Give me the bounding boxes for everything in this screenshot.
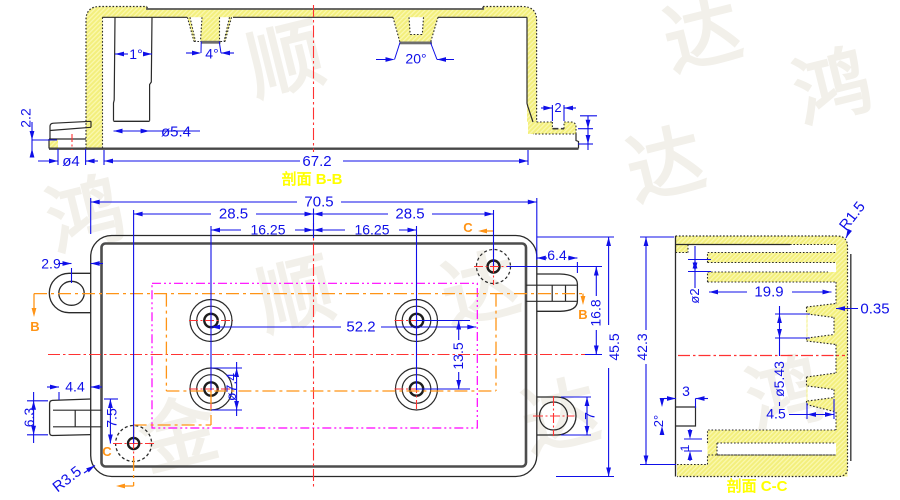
svg-text:ø5.43: ø5.43 (771, 361, 787, 397)
dim 45.5 (537, 236, 614, 238)
dim 4.5 (806, 403, 808, 419)
plan top-right screw hole (477, 250, 511, 284)
B arrows (33, 294, 35, 310)
dim 19.9 (709, 291, 747, 293)
svg-text:19.9: 19.9 (754, 284, 783, 301)
svg-text:13.5: 13.5 (450, 342, 466, 369)
svg-text:2°: 2° (651, 415, 666, 427)
C-C right bar inner edge segments (dotted) (835, 282, 837, 430)
C-C centerline (red) (678, 355, 845, 357)
dim 1deg (115, 53, 128, 55)
dim o5.43 (775, 313, 810, 315)
20deg tooth outline (393, 17, 438, 42)
svg-text:42.3: 42.3 (634, 333, 650, 360)
svg-text:6.3: 6.3 (21, 408, 37, 428)
svg-text:B: B (578, 307, 587, 322)
svg-text:ø2: ø2 (687, 288, 702, 303)
dim o2 (688, 259, 711, 261)
plan lower-left ear (50, 399, 91, 436)
svg-text:ø7.4: ø7.4 (223, 373, 239, 401)
plan bottom-left screw hole (116, 426, 152, 462)
magenta keep-out rect (152, 283, 477, 428)
svg-text:16.25: 16.25 (250, 222, 285, 238)
svg-text:70.5: 70.5 (304, 194, 333, 211)
ear hole centerline (red) (71, 134, 73, 150)
dim 3 (664, 398, 676, 400)
svg-text:28.5: 28.5 (219, 206, 248, 223)
section B-B right foot (528, 122, 576, 134)
svg-text:1°: 1° (129, 46, 142, 62)
dim 16.8 (507, 266, 602, 268)
dim 7 (ear) (561, 396, 591, 398)
svg-text:7.5: 7.5 (104, 408, 120, 428)
svg-text:4.4: 4.4 (65, 379, 85, 395)
plan left ear hole o4 (59, 281, 84, 305)
dim 42.3 (640, 236, 674, 238)
section B-B yellow cut area (86, 7, 537, 149)
C-C boss outlines (dotted) (807, 304, 837, 345)
dim 13.5 (417, 320, 471, 322)
svg-text:4.5: 4.5 (766, 406, 786, 422)
inner left wall edge (dotted) (102, 17, 104, 148)
C-C outline: outer (dotted) (676, 236, 848, 477)
C-C top bar bottom edge (676, 244, 791, 246)
right end step outline (576, 134, 579, 149)
dim o7.4 (211, 367, 242, 369)
C-C fin outlines (dotted) (708, 253, 837, 283)
plan outer case (91, 236, 537, 477)
C-C yellow: slot1 left strip (676, 245, 689, 253)
C-C outer side wall line (850, 254, 852, 461)
dim 20deg (376, 59, 394, 61)
right foot outline (533, 122, 576, 134)
svg-text:7: 7 (582, 412, 598, 420)
section B-B ear cut piece (49, 139, 58, 149)
dim 70.5 (90, 198, 92, 234)
plan bottom-right ear (537, 397, 576, 435)
dim 1 (684, 438, 702, 440)
boss (o5.4) edges (114, 17, 116, 121)
section B-B outer profile (dotted) (86, 7, 147, 149)
section B-B 4deg boss tooth (187, 17, 231, 41)
plan bosses (190, 300, 232, 342)
svg-text:2.2: 2.2 (18, 108, 34, 128)
4deg tooth outline (187, 17, 231, 41)
svg-text:16.8: 16.8 (588, 299, 604, 326)
C-C yellow: lower screw boss (807, 373, 837, 412)
svg-text:C: C (463, 220, 473, 235)
svg-text:52.2: 52.2 (346, 319, 375, 336)
dim 52.2 (211, 326, 341, 328)
C-C yellow: right bar (836, 244, 848, 477)
plan centerlines (red) (48, 354, 600, 356)
svg-text:ø5.4: ø5.4 (161, 124, 191, 141)
svg-text:4°: 4° (205, 46, 218, 62)
svg-text:6.4: 6.4 (547, 247, 567, 263)
C-C yellow: fins (708, 253, 848, 263)
svg-text:剖面 C-C: 剖面 C-C (727, 477, 788, 495)
section line C-C (orange) (210, 391, 212, 425)
C-C yellow: top bar (676, 236, 848, 253)
section B-B main centerline (red) (313, 5, 315, 152)
C-C left wall notch (676, 407, 696, 426)
dim o4 (57, 149, 59, 165)
svg-text:67.2: 67.2 (302, 153, 331, 170)
section B-B 20deg boss tooth (393, 17, 438, 42)
C-C left wall line (675, 236, 677, 477)
svg-text:45.5: 45.5 (606, 333, 622, 360)
svg-text:B: B (30, 319, 39, 334)
dims 16.25 (210, 226, 212, 390)
dim 0.35 (836, 308, 858, 310)
svg-text:1: 1 (678, 444, 692, 451)
dim 2 (foot notch) (551, 105, 553, 121)
svg-text:2: 2 (554, 100, 561, 115)
svg-text:0.35: 0.35 (860, 301, 889, 318)
section B-B inner ceiling lines (103, 16, 188, 18)
right small dims (580, 115, 597, 117)
dim 67.2 (103, 150, 105, 165)
svg-text:2.9: 2.9 (41, 256, 61, 272)
right wall inner edge (526, 17, 528, 103)
bottom line (49, 147, 579, 149)
svg-text:剖面 B-B: 剖面 B-B (282, 170, 343, 188)
dims 28.5 (133, 210, 135, 444)
svg-text:20°: 20° (405, 51, 426, 67)
plan right ear (B) (537, 274, 578, 311)
dim o5.4 (114, 130, 153, 132)
svg-text:28.5: 28.5 (395, 206, 424, 223)
plan left ear (49, 273, 90, 312)
svg-text:C: C (102, 444, 112, 459)
dim 4deg (186, 52, 200, 54)
plan inner wall (thick) (102, 244, 527, 467)
svg-text:16.25: 16.25 (354, 222, 389, 238)
left ear tab (50, 121, 91, 139)
section line B-B (orange) (34, 293, 583, 295)
svg-text:3: 3 (682, 383, 690, 399)
C-C yellow: upper screw boss (807, 304, 837, 345)
svg-text:ø4: ø4 (62, 153, 80, 170)
